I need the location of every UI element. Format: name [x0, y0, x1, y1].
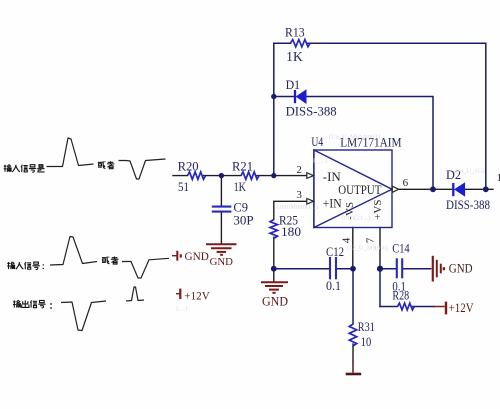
svg-text:L_...]: L_...] [313, 158, 327, 165]
svg-text:30P: 30P [233, 213, 253, 227]
svg-text:51: 51 [178, 180, 189, 194]
svg-text:1K: 1K [234, 180, 246, 194]
svg-text:GND: GND [185, 249, 210, 263]
svg-text:D1: D1 [286, 78, 301, 92]
svg-text:180: 180 [281, 225, 301, 239]
svg-text:3: 3 [296, 189, 302, 201]
svg-text:(mm(21...): (mm(21...) [342, 215, 370, 222]
svg-text:U4: U4 [311, 135, 323, 149]
svg-text:GND: GND [210, 256, 233, 268]
svg-text:R20: R20 [178, 160, 199, 174]
svg-text:GND: GND [449, 262, 473, 276]
svg-text:1: 1 [497, 172, 500, 184]
svg-text:6: 6 [403, 177, 409, 189]
svg-text:(12_U_M)(6%): (12_U_M)(6%) [347, 245, 388, 252]
svg-text:10: 10 [361, 335, 372, 349]
svg-text:R31: R31 [358, 320, 375, 334]
svg-text:L...J: L...J [176, 306, 188, 313]
svg-text:(m_U_1G): (m_U_1G) [456, 168, 485, 175]
svg-text:DISS-388: DISS-388 [446, 198, 490, 212]
svg-text:LmmMmm(1...): LmmMmm(1...) [276, 204, 318, 211]
svg-text:+IN: +IN [323, 196, 342, 210]
svg-text:+12V: +12V [184, 289, 210, 303]
svg-text:C12: C12 [326, 245, 344, 259]
svg-text:OUTPUT: OUTPUT [338, 183, 382, 197]
svg-text:+VS: +VS [372, 200, 384, 220]
svg-text:2: 2 [296, 164, 302, 176]
svg-text:0.1: 0.1 [326, 279, 341, 293]
svg-text:GND: GND [262, 295, 288, 309]
svg-text:DISS-388: DISS-388 [286, 105, 337, 119]
svg-text:R28: R28 [392, 288, 409, 302]
svg-text:. .. .: . .. . [345, 376, 355, 382]
svg-text:R13: R13 [285, 26, 305, 40]
svg-text:C14: C14 [392, 241, 410, 255]
svg-text:1K: 1K [286, 49, 303, 64]
svg-text:7: 7 [365, 237, 377, 243]
svg-text:(Ua_U_M(Amm(1): (Ua_U_M(Amm(1) [329, 134, 380, 141]
svg-text:R21: R21 [232, 160, 253, 174]
svg-text:+12V: +12V [449, 301, 474, 315]
svg-text:4: 4 [341, 237, 353, 243]
